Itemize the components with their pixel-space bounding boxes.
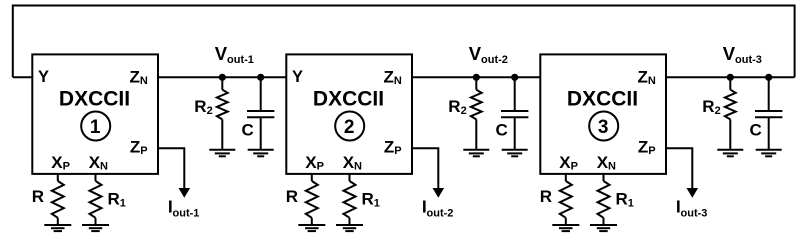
svg-text:1: 1 <box>374 198 380 210</box>
svg-text:X: X <box>89 153 101 172</box>
svg-text:DXCCII: DXCCII <box>313 88 384 111</box>
svg-text:Z: Z <box>384 68 394 87</box>
svg-text:Z: Z <box>638 137 648 156</box>
svg-text:1: 1 <box>120 198 126 210</box>
svg-text:R: R <box>616 189 628 208</box>
svg-text:out-2: out-2 <box>481 54 508 66</box>
svg-text:V: V <box>469 43 482 64</box>
svg-text:R: R <box>448 97 460 116</box>
svg-text:C: C <box>496 121 508 140</box>
svg-text:R: R <box>540 187 552 206</box>
svg-text:2: 2 <box>461 105 467 117</box>
svg-text:N: N <box>354 160 362 172</box>
svg-text:2: 2 <box>344 117 355 138</box>
svg-text:Y: Y <box>38 68 49 86</box>
svg-text:X: X <box>559 153 571 172</box>
svg-text:3: 3 <box>598 117 609 138</box>
svg-text:X: X <box>343 153 355 172</box>
svg-text:out-3: out-3 <box>681 208 708 220</box>
svg-text:Y: Y <box>292 68 303 86</box>
svg-text:X: X <box>597 153 609 172</box>
svg-text:R: R <box>286 187 298 206</box>
svg-text:R: R <box>108 189 120 208</box>
svg-text:X: X <box>305 153 317 172</box>
svg-text:P: P <box>317 160 324 172</box>
svg-text:C: C <box>242 121 254 140</box>
svg-text:X: X <box>51 153 63 172</box>
svg-text:1: 1 <box>628 198 634 210</box>
svg-text:C: C <box>750 121 762 140</box>
svg-text:R: R <box>362 189 374 208</box>
svg-text:N: N <box>394 75 402 87</box>
svg-text:P: P <box>140 145 147 157</box>
svg-text:N: N <box>100 160 108 172</box>
svg-text:P: P <box>571 160 578 172</box>
svg-text:R: R <box>702 97 714 116</box>
svg-text:out-1: out-1 <box>173 208 200 220</box>
svg-text:2: 2 <box>715 105 721 117</box>
svg-text:P: P <box>394 145 401 157</box>
svg-text:P: P <box>648 145 655 157</box>
svg-text:N: N <box>648 75 656 87</box>
svg-text:1: 1 <box>90 117 101 138</box>
svg-text:Z: Z <box>638 68 648 87</box>
svg-text:Z: Z <box>130 137 140 156</box>
svg-text:R: R <box>32 187 44 206</box>
svg-text:DXCCII: DXCCII <box>59 88 130 111</box>
svg-text:out-2: out-2 <box>427 208 454 220</box>
svg-text:DXCCII: DXCCII <box>567 88 638 111</box>
svg-text:R: R <box>194 97 206 116</box>
svg-text:N: N <box>608 160 616 172</box>
svg-text:Z: Z <box>384 137 394 156</box>
svg-text:out-3: out-3 <box>735 54 762 66</box>
svg-text:P: P <box>63 160 70 172</box>
svg-text:V: V <box>723 43 736 64</box>
svg-text:out-1: out-1 <box>227 54 254 66</box>
svg-text:V: V <box>215 43 228 64</box>
svg-text:2: 2 <box>207 105 213 117</box>
svg-text:N: N <box>140 75 148 87</box>
svg-text:Z: Z <box>130 68 140 87</box>
